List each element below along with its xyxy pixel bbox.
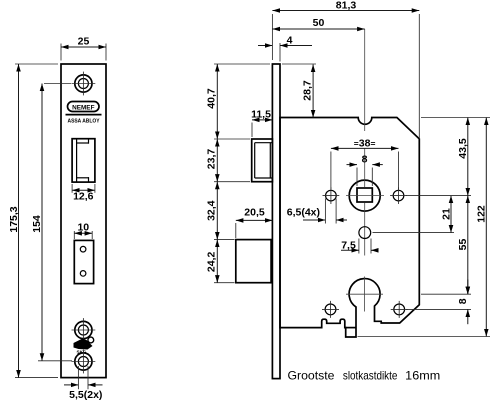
- dim 50: [272, 17, 364, 29]
- dim 24,2: [206, 240, 235, 283]
- svg-text:7,5: 7,5: [341, 239, 356, 251]
- svg-text:50: 50: [313, 17, 325, 29]
- follower centerline horizontal: [346, 195, 384, 197]
- svg-text:=38=: =38=: [354, 138, 376, 150]
- dim 32,4: [206, 182, 235, 240]
- dim 55: [421, 196, 471, 295]
- hole 7,5: [359, 227, 371, 239]
- svg-text:20,5: 20,5: [244, 207, 265, 219]
- follower nut: [349, 180, 380, 211]
- latch bolt side view: [252, 139, 273, 182]
- SKG emblem: [74, 337, 94, 354]
- note text: [288, 369, 441, 383]
- dim 81,3: [272, 0, 419, 139]
- screw hole bottom: [72, 350, 96, 374]
- dim 5,5(2x): [64, 366, 103, 400]
- dim 8 bottom: [406, 280, 471, 325]
- dim 25: [61, 35, 106, 60]
- svg-text:12,6: 12,6: [73, 190, 94, 202]
- fixing hole upper left: [323, 187, 340, 204]
- spindle square hole: [357, 188, 372, 202]
- svg-text:slotkastdikte: slotkastdikte: [343, 369, 398, 383]
- svg-text:154: 154: [31, 215, 43, 233]
- svg-text:4: 4: [287, 34, 293, 46]
- dim 175,3: [8, 64, 58, 378]
- dim 154: [31, 84, 72, 361]
- fixing hole lower right: [391, 301, 408, 318]
- screw hole middle: [72, 318, 96, 342]
- dim 23,7: [206, 139, 250, 182]
- tab inner line: [346, 327, 356, 329]
- svg-text:11,5: 11,5: [251, 109, 271, 121]
- svg-text:10: 10: [77, 221, 89, 233]
- svg-text:175,3: 175,3: [8, 206, 20, 232]
- svg-text:24,2: 24,2: [206, 252, 218, 273]
- dim 21: [373, 196, 455, 233]
- fixing hole lower left: [322, 301, 339, 318]
- dim =38=: [331, 138, 399, 190]
- ASSA ABLOY wordmark: [66, 115, 102, 125]
- faceplate front view: [61, 64, 106, 378]
- dim 8 spindle: [347, 154, 383, 186]
- dim 20,5: [236, 207, 273, 239]
- dim 43,5: [406, 118, 490, 196]
- strike box cutout: [74, 240, 93, 283]
- lock case outline: [280, 118, 419, 338]
- screw hole top: [72, 72, 96, 96]
- dim 4: [258, 34, 312, 61]
- svg-text:25: 25: [78, 35, 90, 47]
- svg-text:81,3: 81,3: [336, 0, 357, 11]
- centerline vertical through follower: [364, 29, 366, 256]
- svg-text:5,5(2x): 5,5(2x): [69, 389, 102, 400]
- faceplate side view: [272, 64, 280, 379]
- NEMEF logo: [68, 102, 100, 112]
- svg-text:43,5: 43,5: [457, 138, 469, 159]
- svg-text:ASSA ABLOY: ASSA ABLOY: [68, 118, 100, 124]
- dim 28,7: [282, 64, 316, 118]
- svg-text:28,7: 28,7: [302, 80, 314, 101]
- dim 10: [74, 221, 92, 239]
- dim 7,5: [341, 239, 379, 254]
- svg-text:21: 21: [440, 208, 452, 220]
- dim 122: [358, 118, 491, 337]
- svg-text:55: 55: [457, 239, 469, 251]
- latch cutout front: [72, 139, 95, 182]
- svg-text:16mm: 16mm: [405, 369, 440, 383]
- dim 6,5(4x): [287, 199, 347, 224]
- svg-text:NEMEF: NEMEF: [72, 104, 94, 111]
- dim 12,6: [72, 184, 95, 202]
- svg-text:40,7: 40,7: [206, 88, 218, 109]
- svg-text:6,5(4x): 6,5(4x): [287, 207, 320, 219]
- deadbolt side view: [236, 240, 271, 283]
- svg-text:23,7: 23,7: [206, 149, 218, 170]
- svg-text:8: 8: [457, 298, 469, 304]
- dim 40,7: [206, 64, 270, 139]
- cylinder crosshair: [346, 277, 383, 312]
- dim 11,5: [251, 109, 272, 137]
- svg-text:8: 8: [362, 154, 368, 166]
- fixing hole upper right: [390, 187, 407, 204]
- svg-text:Grootste: Grootste: [288, 369, 335, 383]
- svg-text:122: 122: [476, 205, 488, 223]
- svg-text:32,4: 32,4: [206, 200, 218, 221]
- strike box holes: [80, 246, 86, 276]
